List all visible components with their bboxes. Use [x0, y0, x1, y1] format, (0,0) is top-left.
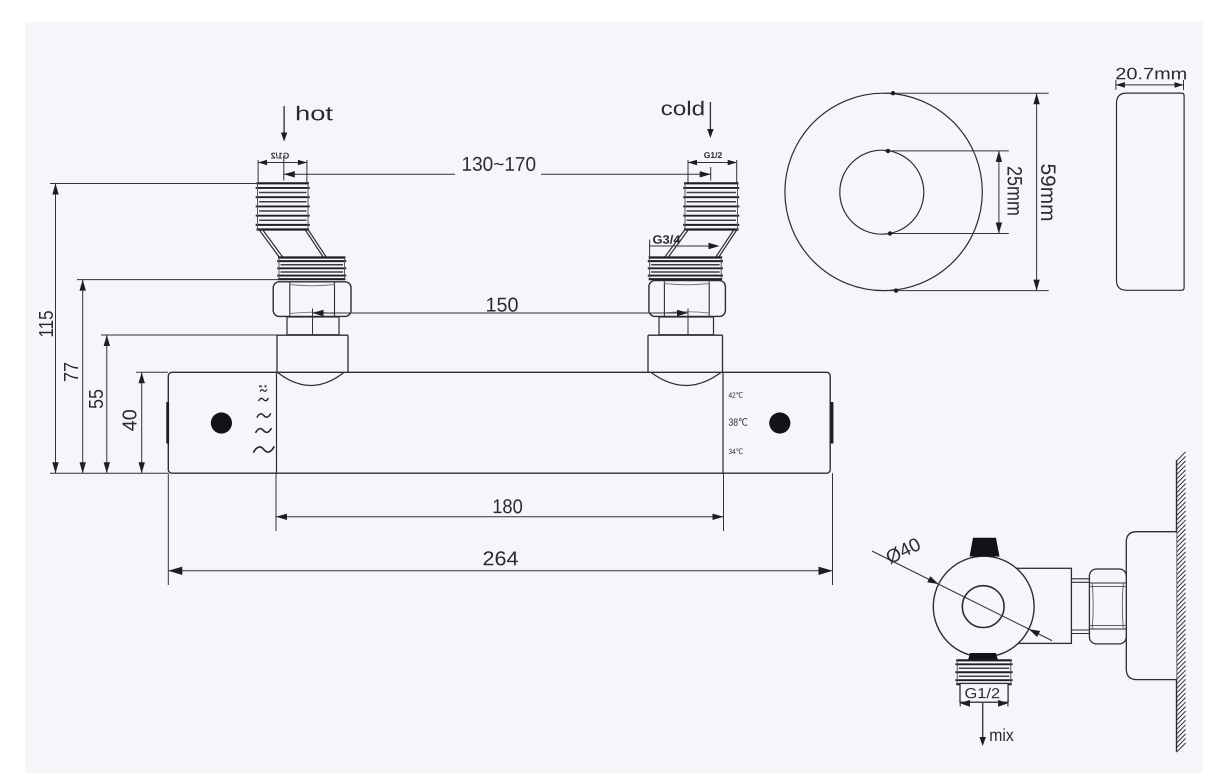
temperature waves icon — [259, 386, 262, 388]
connector neck — [1071, 578, 1089, 580]
cold flow arrow — [709, 102, 711, 132]
hot offset tube — [259, 230, 280, 258]
wall line — [1176, 460, 1178, 752]
ext line 55 — [101, 334, 287, 336]
handle inner circle — [840, 150, 924, 234]
hot side divider — [276, 372, 278, 473]
hot lower thread G3/4 — [278, 256, 346, 258]
bar right end cap mark — [831, 402, 834, 444]
svg-text:20.7mm: 20.7mm — [1115, 65, 1187, 83]
hot bell arc — [278, 372, 345, 385]
handle outer circle — [785, 93, 982, 290]
valve knob inner circle — [962, 586, 1004, 628]
outlet thread G1/2 — [956, 659, 1012, 661]
svg-text:38℃: 38℃ — [728, 418, 747, 429]
dimension 59mm — [1036, 93, 1038, 290]
svg-text:hot: hot — [295, 103, 334, 125]
svg-text:180: 180 — [492, 496, 523, 518]
handle side profile — [1117, 93, 1185, 290]
wall hatching — [1177, 452, 1186, 461]
knob top button — [970, 538, 1000, 557]
svg-text:264: 264 — [482, 548, 518, 570]
mixer bar body — [168, 372, 830, 473]
svg-text:55: 55 — [86, 389, 108, 409]
outlet width arrows — [960, 700, 970, 707]
ext line 77 — [77, 279, 279, 281]
left knob dot — [211, 412, 232, 433]
svg-text:77: 77 — [61, 362, 83, 382]
valve body block — [990, 568, 1071, 643]
svg-text:G3/4: G3/4 — [652, 233, 680, 247]
dimension 115 — [55, 184, 57, 474]
svg-text:130~170: 130~170 — [462, 154, 537, 176]
cold G1/2 dimension — [687, 160, 689, 183]
outlet G1/2 boxed label — [960, 683, 1008, 702]
svg-text:115: 115 — [36, 311, 58, 338]
mix flow arrow — [982, 703, 984, 740]
ext line 115 — [50, 183, 257, 185]
dimension 180 line — [276, 516, 724, 518]
dim 180 extensions — [275, 473, 277, 531]
25mm extension lines — [885, 150, 1009, 152]
dimension 130~170 line — [283, 158, 285, 181]
svg-text:42℃: 42℃ — [728, 391, 743, 400]
dimension 264 line — [168, 570, 832, 572]
cold union nut — [649, 281, 726, 317]
svg-text:G1/2: G1/2 — [271, 150, 290, 160]
dimension 77 — [82, 280, 84, 474]
cold lower thread G3/4 — [649, 256, 723, 258]
svg-text:G1/2: G1/2 — [965, 686, 1001, 702]
cold bell arc — [651, 372, 721, 385]
svg-text:mix: mix — [989, 725, 1014, 745]
valve knob circle — [933, 556, 1034, 657]
dimension 150 centre lines — [312, 309, 314, 335]
dimension 20.7mm line — [1115, 80, 1117, 90]
wall flange — [1126, 532, 1176, 680]
svg-text:40: 40 — [119, 409, 141, 431]
diameter arrows — [927, 576, 938, 584]
cold collar — [659, 317, 714, 335]
cold offset tube — [665, 230, 686, 258]
hot union nut — [273, 282, 351, 317]
dimension diameter line — [872, 551, 1052, 641]
dimension 25mm — [998, 151, 1000, 234]
hot G1/2 dimension — [257, 160, 259, 183]
cold G3/4 leader — [649, 240, 651, 259]
svg-text:34℃: 34℃ — [728, 447, 743, 456]
hot collar — [287, 317, 339, 335]
bar left end cap mark — [166, 402, 169, 444]
connector hex nut — [1089, 569, 1126, 644]
dimension 150 line — [313, 312, 689, 314]
dim 264 extensions — [167, 473, 169, 585]
dimension 40 — [141, 372, 143, 473]
hot upper thread G1/2 — [257, 182, 310, 184]
ext line 40 — [136, 371, 168, 373]
svg-text:cold: cold — [661, 98, 706, 120]
hot flow arrow — [283, 106, 285, 136]
cold upper thread G1/2 — [684, 182, 739, 184]
svg-text:G1/2: G1/2 — [704, 150, 723, 160]
cold side divider — [722, 372, 724, 473]
59mm extension lines — [884, 92, 1049, 94]
right knob dot — [769, 412, 790, 433]
hot bell base — [277, 334, 348, 336]
dim baseline extension — [50, 472, 168, 474]
cold bell base — [648, 334, 723, 336]
svg-text:59mm: 59mm — [1036, 164, 1060, 222]
dimension 55 — [106, 335, 108, 473]
outlet shadow wedge — [968, 653, 998, 660]
svg-text:25mm: 25mm — [1003, 166, 1026, 216]
